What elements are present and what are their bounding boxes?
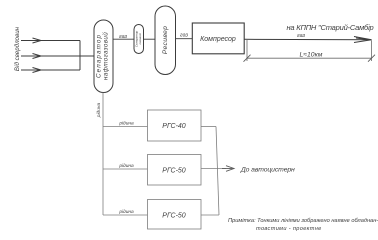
wire: well line 2: [21, 54, 94, 59]
dimension: extension line right: [371, 41, 373, 62]
svg-text:РГС-50: РГС-50: [162, 168, 186, 175]
dimension: tick left: [244, 55, 251, 62]
dimension: tick right: [368, 55, 375, 62]
tank T3: РГС-50: [148, 200, 202, 230]
wire: branch 2 to tank RGS-50a: [103, 168, 148, 170]
vessel: receiver U3 "Ресивер": [155, 6, 176, 75]
wire: branch 3 to tank RGS-50b: [103, 214, 148, 216]
wire: tank 1 outlet to collector: [201, 126, 216, 128]
svg-text:рідина: рідина: [118, 120, 134, 126]
wire: separator to gas separator: [113, 38, 134, 40]
wire: receiver to compressor: [176, 38, 193, 40]
block: compressor U4 "Компресор": [192, 23, 244, 54]
svg-text:Від свердловин: Від свердловин: [14, 26, 21, 71]
tank T2: РГС-50: [148, 155, 202, 186]
svg-text:нафтогазовий: нафтогазовий: [102, 32, 110, 80]
svg-text:товстими - проектне: товстими - проектне: [256, 226, 322, 232]
dimension: line L=10km: [247, 57, 372, 59]
wire: compressor discharge pipeline to KPPN with arrowhead: [244, 37, 371, 43]
wire: separator liquid drain vertical: [102, 93, 104, 216]
svg-text:газ: газ: [297, 33, 305, 39]
svg-text:Ресивер: Ресивер: [162, 26, 169, 54]
svg-text:рідина: рідина: [96, 102, 102, 118]
wire: tank 3 outlet to collector: [201, 214, 219, 216]
svg-text:L≈10км: L≈10км: [300, 52, 323, 59]
svg-text:РГС-40: РГС-40: [162, 123, 186, 130]
svg-text:Компресор: Компресор: [200, 36, 236, 43]
wire: inlet manifold vertical: [79, 41, 81, 71]
svg-text:Сепаратор: Сепаратор: [96, 34, 103, 78]
wire: tank 2 outlet through collector: [201, 168, 226, 170]
tank T1: РГС-40: [148, 110, 202, 141]
svg-text:газ: газ: [119, 34, 127, 40]
svg-text:рідина: рідина: [118, 209, 134, 215]
wire: collector vertical: [216, 127, 219, 216]
svg-text:Примітка: Тонкими лініями зоб: Примітка: Тонкими лініями зображено наяв…: [228, 218, 378, 224]
wire: well line 1: [21, 38, 80, 43]
svg-text:рідина: рідина: [118, 163, 134, 169]
vessel: small gas separator U2: [134, 25, 144, 54]
svg-text:на КППН "Старий-Самбір: на КППН "Старий-Самбір: [286, 23, 373, 32]
dimension: extension line left: [246, 40, 248, 61]
svg-text:газовий: газовий: [138, 33, 142, 44]
svg-text:РГС-50: РГС-50: [162, 213, 186, 220]
wire: arrow to tank trucks: [222, 166, 234, 172]
svg-text:До автоцистерн: До автоцистерн: [240, 167, 295, 174]
svg-text:газ: газ: [180, 33, 188, 39]
wire: gas separator to receiver: [144, 38, 156, 40]
vessel: separator U1 "Сепаратор нафтогазовий": [94, 20, 113, 93]
wire: branch 1 to tank RGS-40: [103, 126, 148, 128]
wire: well line 3: [21, 68, 80, 73]
